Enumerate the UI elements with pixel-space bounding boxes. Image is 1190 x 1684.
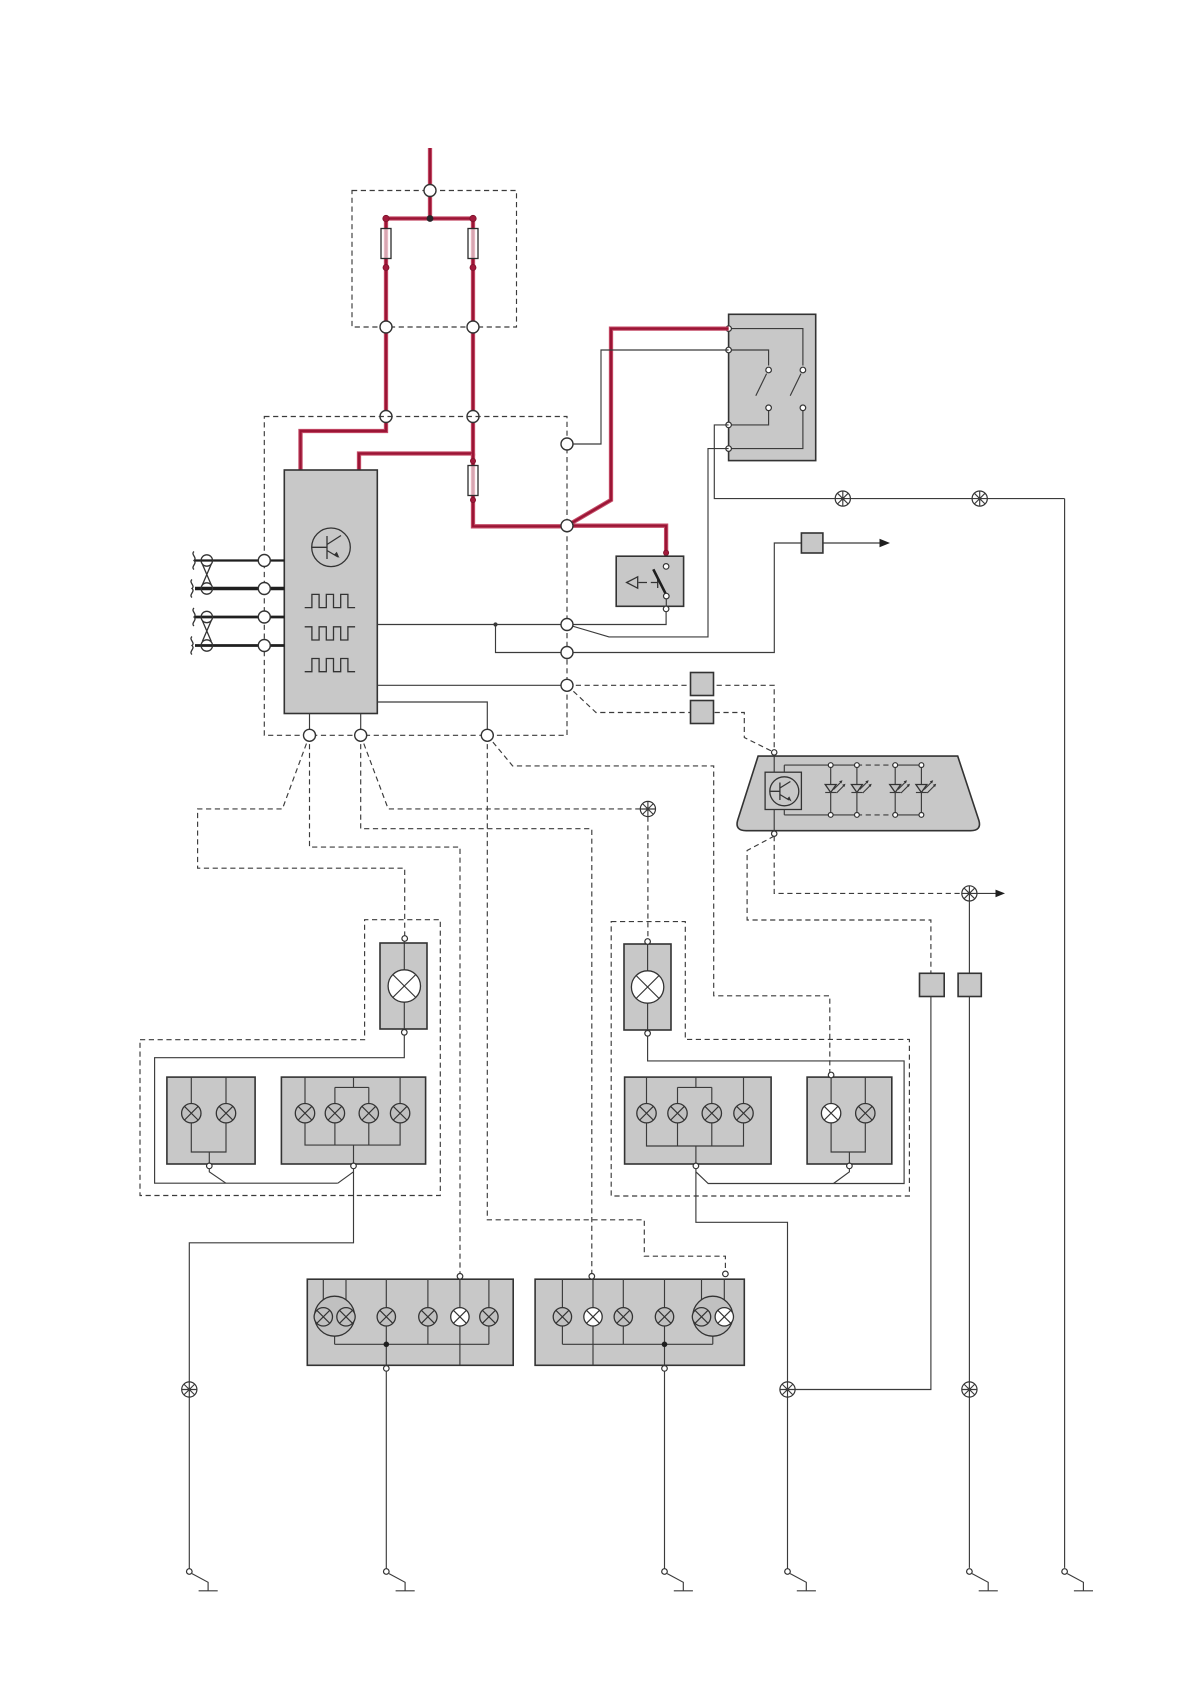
left side marker pin circle (bottom) — [402, 1030, 408, 1036]
connector circle harness bottom pin C — [481, 729, 493, 741]
LED D3 — [890, 763, 910, 818]
wire diagonal to right fog pin — [834, 1166, 850, 1184]
lamp headlamp right 2 — [668, 1104, 687, 1123]
lamp park left B — [216, 1104, 235, 1123]
right side marker lamp wiring — [647, 944, 649, 1030]
connector circle sensor pin 3 — [258, 611, 270, 623]
LED D1 — [825, 763, 845, 818]
left park lamp pin circle — [207, 1163, 213, 1169]
inline connector block lower — [691, 701, 714, 724]
lamp tail left twin A — [314, 1308, 332, 1326]
node dot red above ignition switch — [664, 550, 669, 555]
fuse box 11/ (dashed) — [352, 191, 517, 328]
ground G2 — [384, 1569, 415, 1591]
twisted-pair wire 2 (sensor input) — [191, 608, 284, 655]
waveform symbol 1 in U1 — [305, 594, 355, 607]
connector circle harness right pin 4 — [561, 647, 573, 659]
waveform symbol 2 in U1 — [305, 627, 355, 640]
ground G4 — [785, 1569, 816, 1591]
ignition switch S2 box — [616, 556, 683, 606]
connector circle harness bottom pin B — [355, 729, 367, 741]
S2 pin circle below box — [663, 606, 669, 612]
transistor symbol in U1 — [312, 528, 351, 567]
wire right cluster ground down — [664, 1371, 666, 1569]
connector circle harness top right — [467, 411, 479, 423]
connector circle harness bottom pin A — [304, 729, 316, 741]
connector symbol (starburst) on C4 ground line — [962, 1382, 977, 1397]
wire red bus in fuse box — [386, 219, 473, 231]
connector symbol (starburst) right of LED module — [962, 886, 977, 901]
S1 switch blade right — [790, 374, 801, 396]
node dot above F3 — [470, 458, 475, 463]
lamp tail left 3 — [419, 1308, 437, 1326]
fuse F1 — [381, 229, 391, 259]
wire S1 pin 2 to harness — [567, 350, 729, 444]
connector circle harness right pin 5 — [561, 679, 573, 691]
S1 pin circles — [726, 326, 732, 452]
ground G3 — [662, 1569, 693, 1591]
wire C3 down to ground bus — [795, 997, 931, 1390]
LED D4 — [916, 763, 936, 818]
wire C4 down to ground — [968, 997, 970, 1568]
right rail wire down to ground — [1064, 499, 1066, 1568]
ground G1 — [187, 1569, 218, 1591]
connector symbol (starburst) on right rail B — [972, 491, 987, 506]
wire red junction to ignition switch — [567, 526, 666, 566]
lamp tail right 4 — [655, 1308, 673, 1326]
right headlamp pin circle — [693, 1163, 699, 1169]
right fog lamp pin circle — [847, 1163, 853, 1169]
twin lamp housing right — [693, 1296, 733, 1336]
LED D2 — [851, 763, 871, 818]
node dot right bus corner — [470, 215, 476, 221]
right lamp section dashed boundary — [611, 922, 909, 1196]
lamp tail right twin B (active) — [715, 1308, 733, 1326]
node dot below F2 — [470, 265, 476, 271]
LED module bottom pin circle — [772, 831, 777, 836]
lamp tail right 3 — [614, 1308, 632, 1326]
lamp tail left 4 (active) — [451, 1308, 469, 1326]
connector circle harness right pin 2 (red feed) — [561, 520, 573, 532]
wire U1 bottom pin B — [360, 714, 362, 736]
wire right ground route — [648, 1036, 905, 1183]
lamp headlamp right 1 — [637, 1104, 656, 1123]
left cluster ground pin circle — [384, 1366, 390, 1372]
wire starburst down to connector block C4 — [968, 901, 970, 973]
S1 switch contact circles — [766, 367, 806, 410]
connector circle F2 lower — [467, 321, 479, 333]
wire U1 bottom-right output — [377, 702, 487, 735]
lamp left side marker — [388, 970, 420, 1002]
lamp fog right B — [856, 1104, 875, 1123]
left lamp section dashed boundary — [140, 920, 440, 1196]
wire U1 bottom pin A — [309, 714, 311, 736]
wire red F2 branch to control module — [359, 417, 473, 471]
right fog unit top pin circle — [828, 1072, 834, 1078]
connector circle F1 lower — [380, 321, 392, 333]
wire red F1 output down to harness — [384, 327, 388, 417]
lamp tail left twin B — [337, 1308, 355, 1326]
output arrow — [823, 539, 890, 547]
lamp headlamp right 4 — [734, 1104, 753, 1123]
wire S1 pin 3 to right rail — [714, 425, 1064, 499]
connector symbol (starburst) on right rail A — [835, 491, 850, 506]
light switch S1 box — [729, 314, 816, 460]
LED module feed wire — [773, 755, 775, 832]
S1 switch blade left — [756, 374, 767, 396]
right cluster ground pin circle — [662, 1366, 668, 1372]
connector symbol (starburst) on side marker feed — [640, 801, 655, 816]
left park lamp unit (2 lamps) — [167, 1077, 255, 1164]
lamp tail left 2 — [377, 1308, 395, 1326]
wire branch from junction down to second pin — [496, 625, 568, 653]
wire dashed C2 to right fog lamp unit — [487, 735, 830, 1072]
right side marker pin circle (top) — [645, 939, 651, 945]
wire U1 output upper (to junction) — [377, 624, 567, 626]
wire dashed B1 to right side marker — [361, 735, 641, 809]
left side marker pin circle (top) — [402, 936, 408, 942]
junction dot (black) at fuse bus — [427, 215, 434, 222]
ground G6 — [1062, 1569, 1093, 1591]
connector circle harness right pin 3 — [561, 619, 573, 631]
twisted-pair wire 1 (sensor input) — [191, 552, 284, 598]
wire U1 output lower (lamp control) — [377, 684, 567, 686]
connector circle sensor pin 4 — [258, 640, 270, 652]
wire dashed LED module to starburst right — [774, 836, 962, 893]
connector circle sensor pin 2 — [258, 583, 270, 595]
connector block C3 — [920, 973, 945, 996]
fuse F2 — [468, 229, 478, 259]
wire red supply to S1 pin 1 — [567, 329, 729, 526]
connector symbol (starburst) on left ground line — [182, 1382, 197, 1397]
wire red through right fuse — [471, 228, 475, 327]
left side marker lamp unit — [380, 943, 427, 1029]
lamp tail left 5 — [480, 1308, 498, 1326]
wire left cluster ground down — [385, 1371, 387, 1569]
lamp park left A — [182, 1104, 201, 1123]
lamp headlamp left 1 — [295, 1104, 314, 1123]
lamp headlamp left 2 — [325, 1104, 344, 1123]
lamp headlamp right 3 — [702, 1104, 721, 1123]
lamp fog right A (active) — [821, 1104, 840, 1123]
wire right main ground run — [696, 1166, 788, 1569]
node dot below F1 — [383, 265, 389, 271]
wire diagonal from left headlamp pin — [338, 1172, 354, 1183]
arrow right of starburst — [977, 890, 1005, 898]
LED module bus wiring — [784, 765, 921, 815]
right cluster feed pin circle B — [723, 1271, 729, 1277]
wire dashed LED module lower-left branch — [747, 836, 931, 973]
wire dashed A1 to left side marker — [198, 735, 405, 936]
wire diagonal from right headlamp pin — [696, 1172, 834, 1184]
right side marker lamp unit — [624, 944, 671, 1030]
waveform symbol 3 in U1 — [305, 659, 355, 672]
wire S1 pin 4 to harness junction — [567, 449, 729, 637]
S1 internal wiring — [729, 329, 803, 449]
wire dashed B2 to right tail cluster — [361, 735, 592, 1274]
right cluster feed pin circle A — [589, 1274, 595, 1280]
connector circle harness top left — [380, 411, 392, 423]
wire dashed A2 to left tail cluster — [310, 735, 461, 1274]
fuse F3 — [468, 466, 478, 496]
twin lamp housing left — [315, 1296, 355, 1336]
junction dot on output wire — [493, 622, 497, 626]
ground G5 — [967, 1569, 998, 1591]
S2 switch blade — [653, 569, 665, 594]
control module U1 — [284, 470, 377, 714]
LED module transistor box — [765, 772, 801, 809]
lamp headlamp left 4 — [390, 1104, 409, 1123]
wire dashed C1 to right tail cluster inner — [487, 735, 725, 1271]
left headlamp pin circle — [351, 1163, 357, 1169]
wire battery feed (red, top) — [428, 148, 432, 219]
junction dot left cluster ground — [384, 1342, 390, 1348]
wire red F2 down to fuse F3 — [473, 454, 567, 527]
left side marker lamp wiring — [403, 941, 405, 1029]
junction dot right cluster ground — [662, 1342, 668, 1348]
left tail lamp cluster box — [307, 1279, 513, 1365]
LED module (trapezoid housing) — [737, 756, 979, 831]
wire left ground route — [155, 1035, 405, 1183]
inline connector block upper — [691, 673, 714, 696]
wire red through left fuse — [384, 228, 388, 327]
connector circle harness right pin 1 — [561, 438, 573, 450]
wire to output arrow connector — [567, 543, 801, 653]
lamp tail right 1 — [553, 1308, 571, 1326]
right fog lamp unit (2 lamps) — [807, 1077, 892, 1164]
wire red F2 output down to harness — [471, 327, 475, 417]
S2 contact circles — [663, 564, 669, 599]
S2 mechanical arrow symbol — [627, 577, 658, 588]
LED module top pin circle — [772, 750, 777, 755]
wire left main ground run — [189, 1166, 353, 1569]
left cluster feed pin circle — [457, 1274, 463, 1280]
lamp tail right 2 (active) — [584, 1308, 602, 1326]
node dot left bus corner — [383, 215, 389, 221]
wire dashed starburst down to right side marker — [647, 817, 649, 939]
wire dashed U1 to LED module (upper branch) — [567, 685, 774, 750]
S2 bottom pin wire — [567, 599, 666, 625]
right headlamp unit (4 lamps) — [625, 1077, 772, 1164]
lamp right side marker — [631, 971, 663, 1003]
wire red F1 to control module — [301, 417, 387, 471]
connector block C4 — [958, 973, 981, 996]
connector symbol (starburst) on right headlamp ground line — [780, 1382, 795, 1397]
right tail lamp cluster box — [535, 1279, 744, 1365]
connector circle sensor pin 1 — [258, 555, 270, 567]
connector circle top of fuse box — [424, 185, 436, 197]
right side marker pin circle (bottom) — [645, 1031, 651, 1037]
lamp headlamp left 3 — [359, 1104, 378, 1123]
node dot below F3 — [470, 497, 475, 502]
wire diagonal to left park lamp pin — [209, 1166, 226, 1183]
left headlamp unit (4 lamps) — [281, 1077, 425, 1164]
harness dashed box around control module — [264, 417, 567, 736]
output connector block — [801, 533, 823, 553]
lamp tail right twin A — [692, 1308, 710, 1326]
wire dashed U1 to LED module (lower branch) — [567, 685, 774, 752]
